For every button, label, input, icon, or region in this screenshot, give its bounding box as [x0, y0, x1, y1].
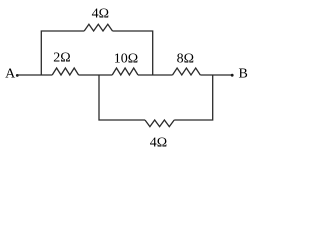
- wire: resistor 8ohm to node B: [200, 74, 232, 76]
- svg-text:B: B: [239, 67, 248, 82]
- svg-text:2Ω: 2Ω: [53, 51, 70, 66]
- resistor R5 4ohm (bottom branch): [145, 120, 174, 127]
- wire: top branch right (across and down to middle wire): [113, 31, 153, 75]
- resistor R1 2ohm: [52, 68, 78, 75]
- node A (junction dot): [16, 74, 19, 77]
- svg-text:4Ω: 4Ω: [150, 135, 167, 150]
- svg-text:4Ω: 4Ω: [92, 7, 109, 22]
- wire: top branch left (up from middle wire, across to resistor 4ohm top): [41, 31, 84, 75]
- wire: resistor 10ohm to resistor 8ohm: [138, 74, 173, 76]
- svg-text:A: A: [5, 67, 16, 82]
- resistor R4 4ohm (top branch): [84, 24, 112, 31]
- svg-text:8Ω: 8Ω: [177, 52, 194, 67]
- svg-text:10Ω: 10Ω: [114, 52, 138, 67]
- wire: resistor 2ohm to resistor 10ohm: [79, 74, 113, 76]
- wire: bottom branch right (across and up to middle wire): [174, 75, 213, 120]
- resistor R3 8ohm: [173, 68, 201, 75]
- wire: bottom branch left (down from middle wire, across to resistor 4ohm bottom): [99, 75, 145, 120]
- resistor R2 10ohm: [112, 68, 138, 75]
- node B (junction dot): [231, 74, 234, 77]
- wire: A to resistor 2ohm: [17, 74, 52, 76]
